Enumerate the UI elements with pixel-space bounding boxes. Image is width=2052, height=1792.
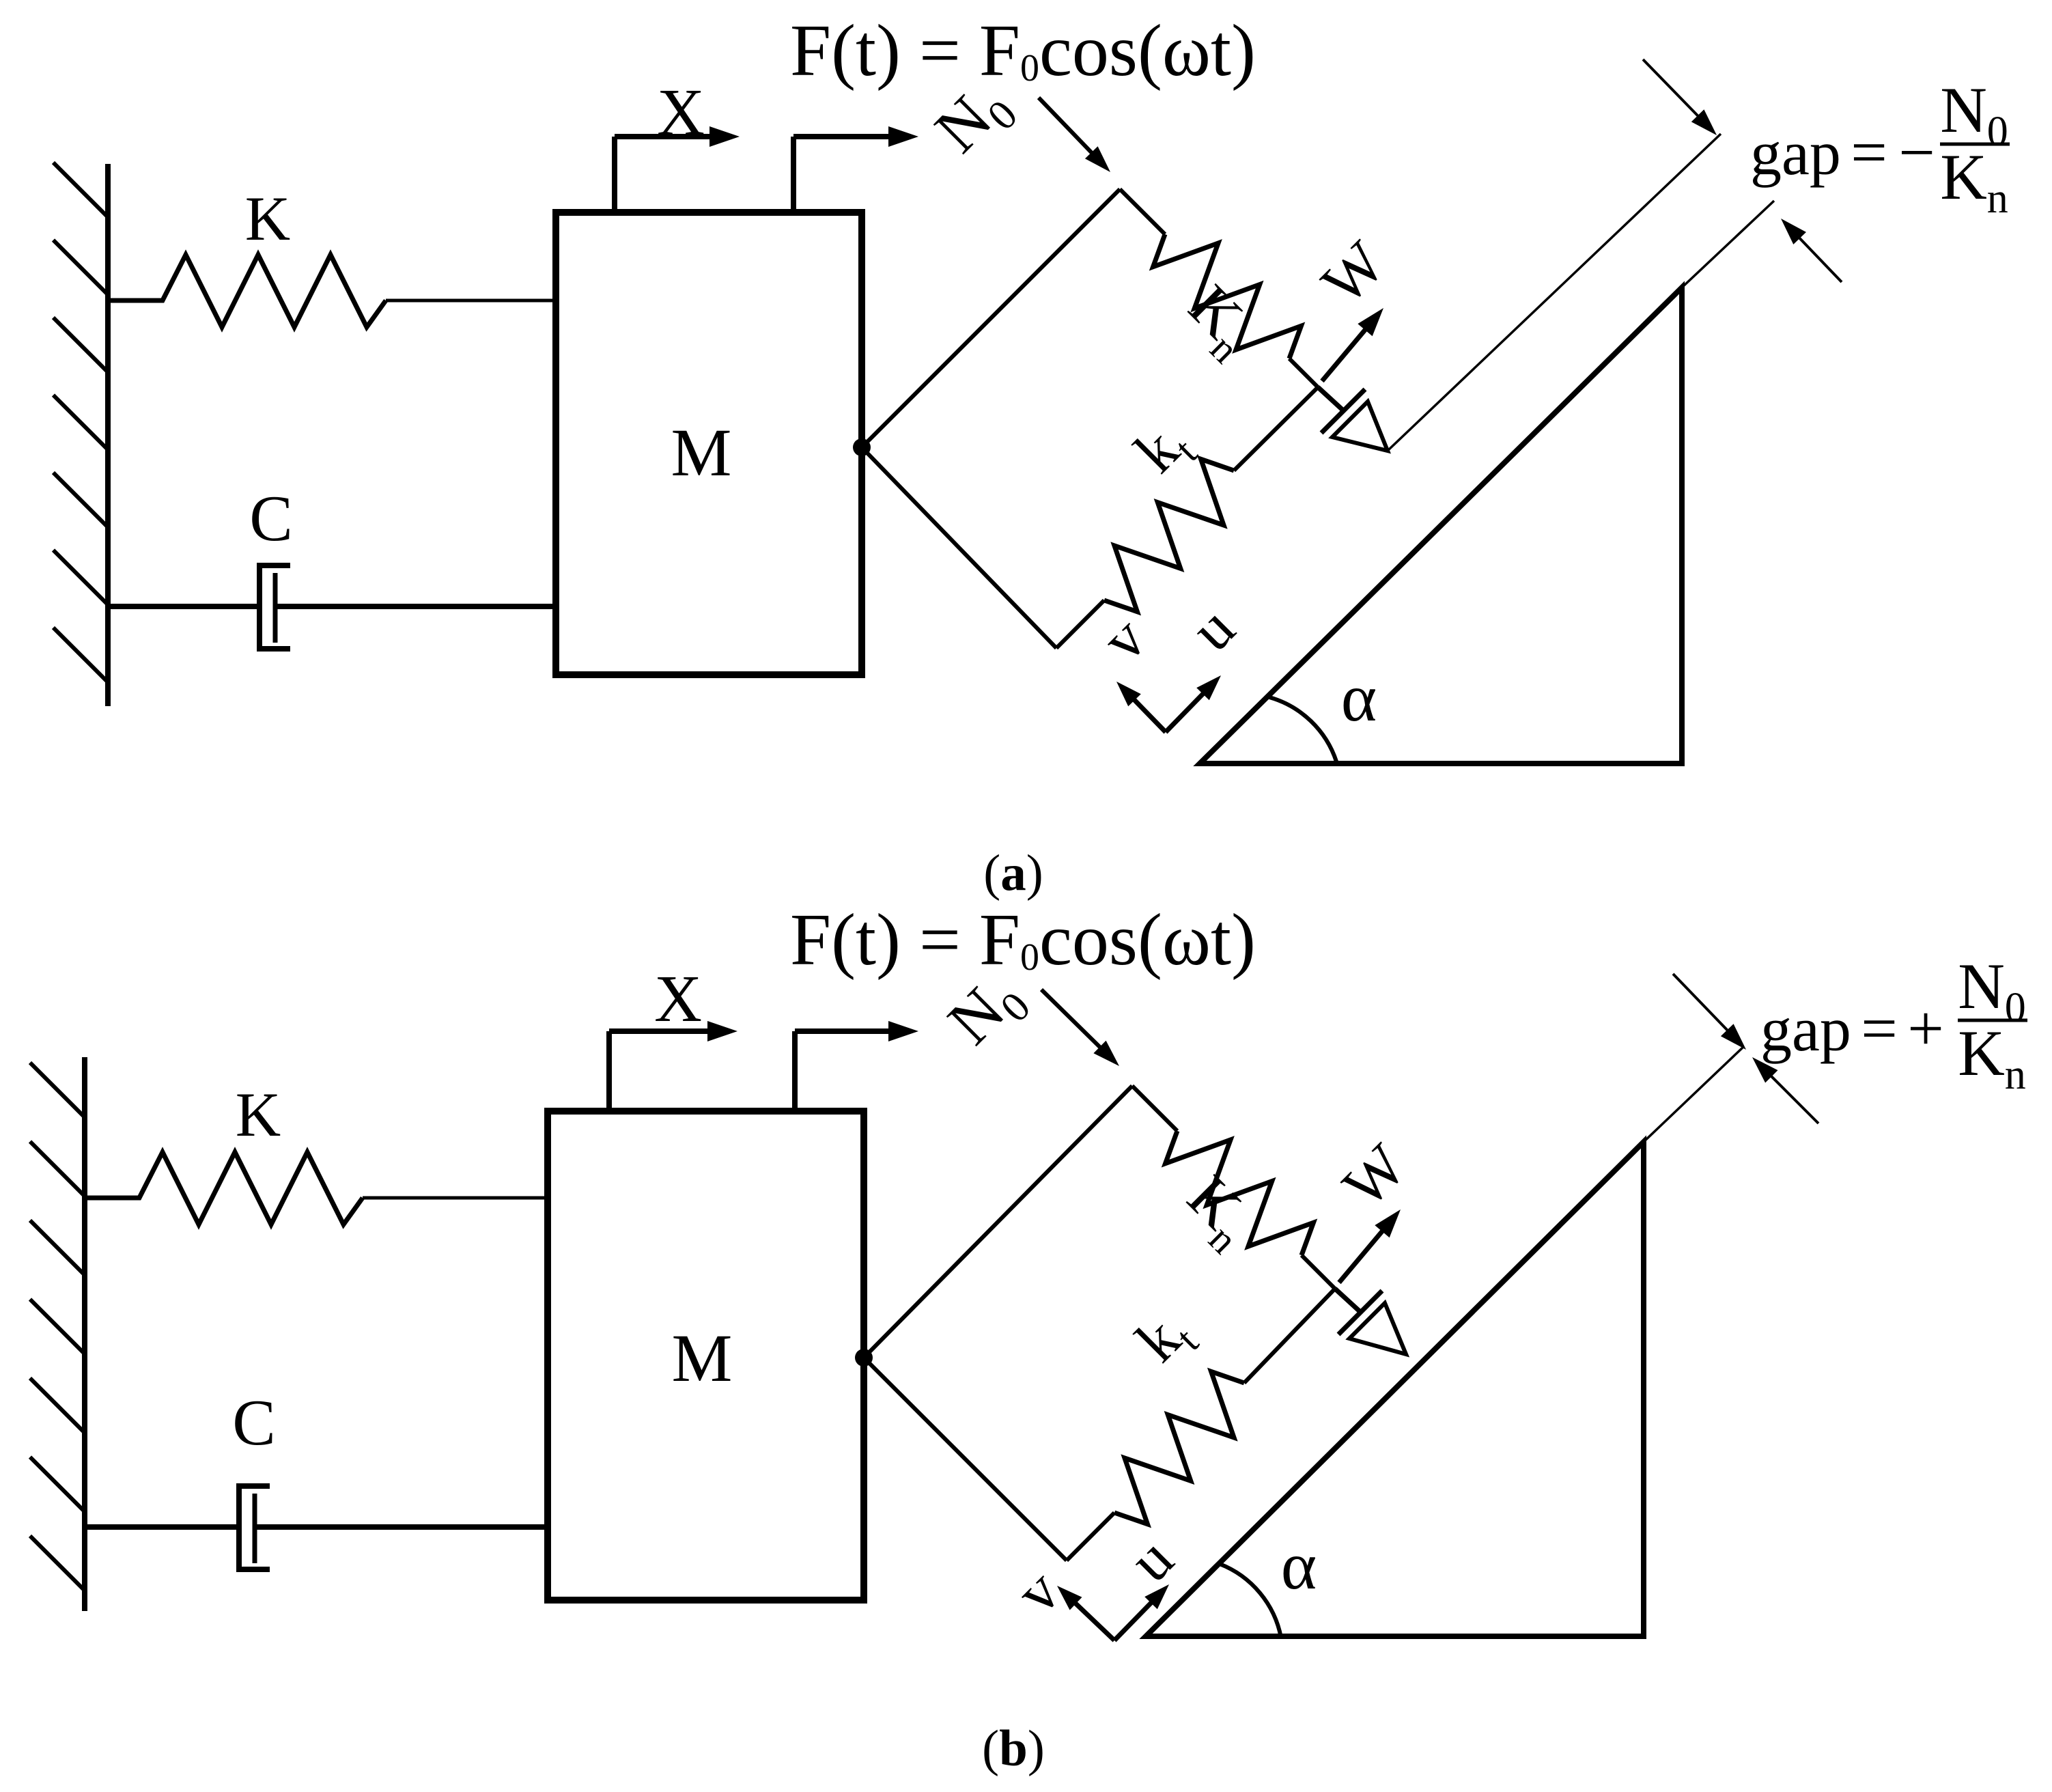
svg-text:M: M	[672, 1320, 733, 1396]
node: contact element pivot on mass (figure a)	[853, 438, 871, 456]
spring K (figure a)	[108, 255, 386, 327]
fixed wall (figure b)	[82, 1057, 87, 1611]
arrow u (figure b)	[1114, 1598, 1155, 1640]
arrow W (figure a)	[1322, 324, 1370, 381]
damper C rod left (figure a)	[108, 604, 259, 609]
damper C cup (figure a)	[259, 565, 290, 649]
link: node to bottom corner (figure b)	[864, 1358, 1067, 1560]
damper C piston (figure b)	[253, 1494, 257, 1563]
spring Kn lead-in (figure b)	[1132, 1086, 1177, 1131]
spring K (figure b)	[85, 1152, 363, 1224]
spring Kn zigzag (figure a)	[1153, 234, 1302, 359]
contact element shaft (figure a)	[1318, 387, 1343, 410]
node: contact element pivot on mass (figure b)	[855, 1349, 873, 1367]
gap dimension arrow upper (figure b)	[1673, 974, 1732, 1035]
svg-text:K: K	[236, 1080, 281, 1149]
damper C rod right (figure b)	[255, 1524, 548, 1530]
spring Kn zigzag (figure b)	[1166, 1131, 1314, 1255]
svg-text:=: =	[1851, 116, 1887, 188]
mass M rectangle (figure a)	[556, 212, 862, 675]
incline extension line beyond apex (figure a)	[1682, 201, 1774, 288]
svg-text:α: α	[1281, 1528, 1317, 1604]
arrow v (figure a)	[1130, 695, 1166, 732]
svg-text:(b): (b)	[982, 1720, 1045, 1777]
svg-text:M: M	[671, 415, 732, 490]
mass M rectangle (figure b)	[548, 1111, 864, 1600]
link: node to bottom corner (figure a)	[862, 447, 1056, 648]
force arrow F(t) (figure a)	[791, 137, 796, 212]
inclined plane triangle (figure b)	[1146, 1142, 1644, 1636]
inclined plane triangle (figure a)	[1200, 288, 1682, 764]
spring Kn lead-in (figure a)	[1120, 189, 1165, 234]
spring kt lead-out (figure b)	[1244, 1289, 1335, 1383]
damper C piston (figure a)	[273, 573, 278, 643]
angle arc alpha (figure b)	[1220, 1564, 1281, 1638]
spring Kn lead-out (figure a)	[1289, 359, 1318, 387]
spring kt zigzag (figure a)	[1104, 459, 1234, 611]
arrow N0 (figure a)	[1039, 98, 1096, 157]
contact element cross bar (figure b)	[1338, 1291, 1382, 1334]
force arrow F(t) (figure b)	[792, 1031, 798, 1111]
svg-text:gap: gap	[1750, 118, 1841, 188]
svg-text:−: −	[1898, 116, 1935, 188]
gap dimension arrow lower (figure a)	[1795, 234, 1842, 282]
arrow u (figure a)	[1166, 689, 1207, 732]
wall hatching (figure a)	[53, 163, 108, 682]
spring kt lead-out (figure a)	[1234, 387, 1318, 471]
spring Kn lead-out (figure b)	[1302, 1255, 1335, 1289]
damper C rod left (figure b)	[85, 1524, 239, 1530]
svg-text:C: C	[249, 482, 292, 555]
spring kt lead-in (figure b)	[1067, 1513, 1114, 1560]
svg-text:X: X	[654, 962, 702, 1035]
svg-text:(a): (a)	[983, 845, 1043, 901]
arrow v (figure b)	[1071, 1599, 1114, 1640]
contact element cross bar (figure a)	[1321, 389, 1365, 433]
wall hatching (figure b)	[30, 1063, 85, 1591]
svg-text:+: +	[1907, 992, 1944, 1065]
svg-text:α: α	[1341, 660, 1377, 736]
wire: spring K to mass (figure a)	[386, 299, 556, 303]
svg-text:X: X	[657, 76, 705, 149]
link: node to top corner (figure a)	[862, 189, 1120, 447]
contact surface line (figure a)	[1388, 134, 1721, 451]
svg-text:C: C	[232, 1386, 275, 1459]
arrow N0 (figure b)	[1041, 990, 1105, 1052]
displacement arrow X (figure a)	[612, 137, 617, 212]
angle arc alpha (figure a)	[1269, 697, 1336, 761]
contact element hollow arrow tip (figure b)	[1349, 1303, 1406, 1354]
wire: spring K to mass (figure b)	[363, 1196, 548, 1200]
spring kt zigzag (figure b)	[1114, 1371, 1244, 1524]
arrow W (figure b)	[1339, 1226, 1387, 1283]
displacement arrow X (figure b)	[606, 1031, 612, 1111]
svg-text:gap: gap	[1760, 994, 1851, 1064]
svg-text:=: =	[1861, 992, 1898, 1065]
damper C rod right (figure a)	[275, 604, 556, 609]
damper C cup (figure b)	[239, 1486, 270, 1569]
contact element shaft (figure b)	[1335, 1289, 1360, 1311]
incline extension line beyond apex (figure b)	[1644, 1047, 1743, 1142]
contact element hollow arrow tip (figure a)	[1332, 402, 1388, 451]
fixed wall (figure a)	[105, 164, 111, 706]
gap dimension arrow lower (figure b)	[1767, 1072, 1818, 1123]
svg-text:K: K	[245, 184, 290, 253]
link: node to top corner (figure b)	[864, 1086, 1132, 1358]
gap dimension arrow upper (figure a)	[1643, 59, 1702, 121]
spring kt lead-in (figure a)	[1056, 600, 1104, 648]
